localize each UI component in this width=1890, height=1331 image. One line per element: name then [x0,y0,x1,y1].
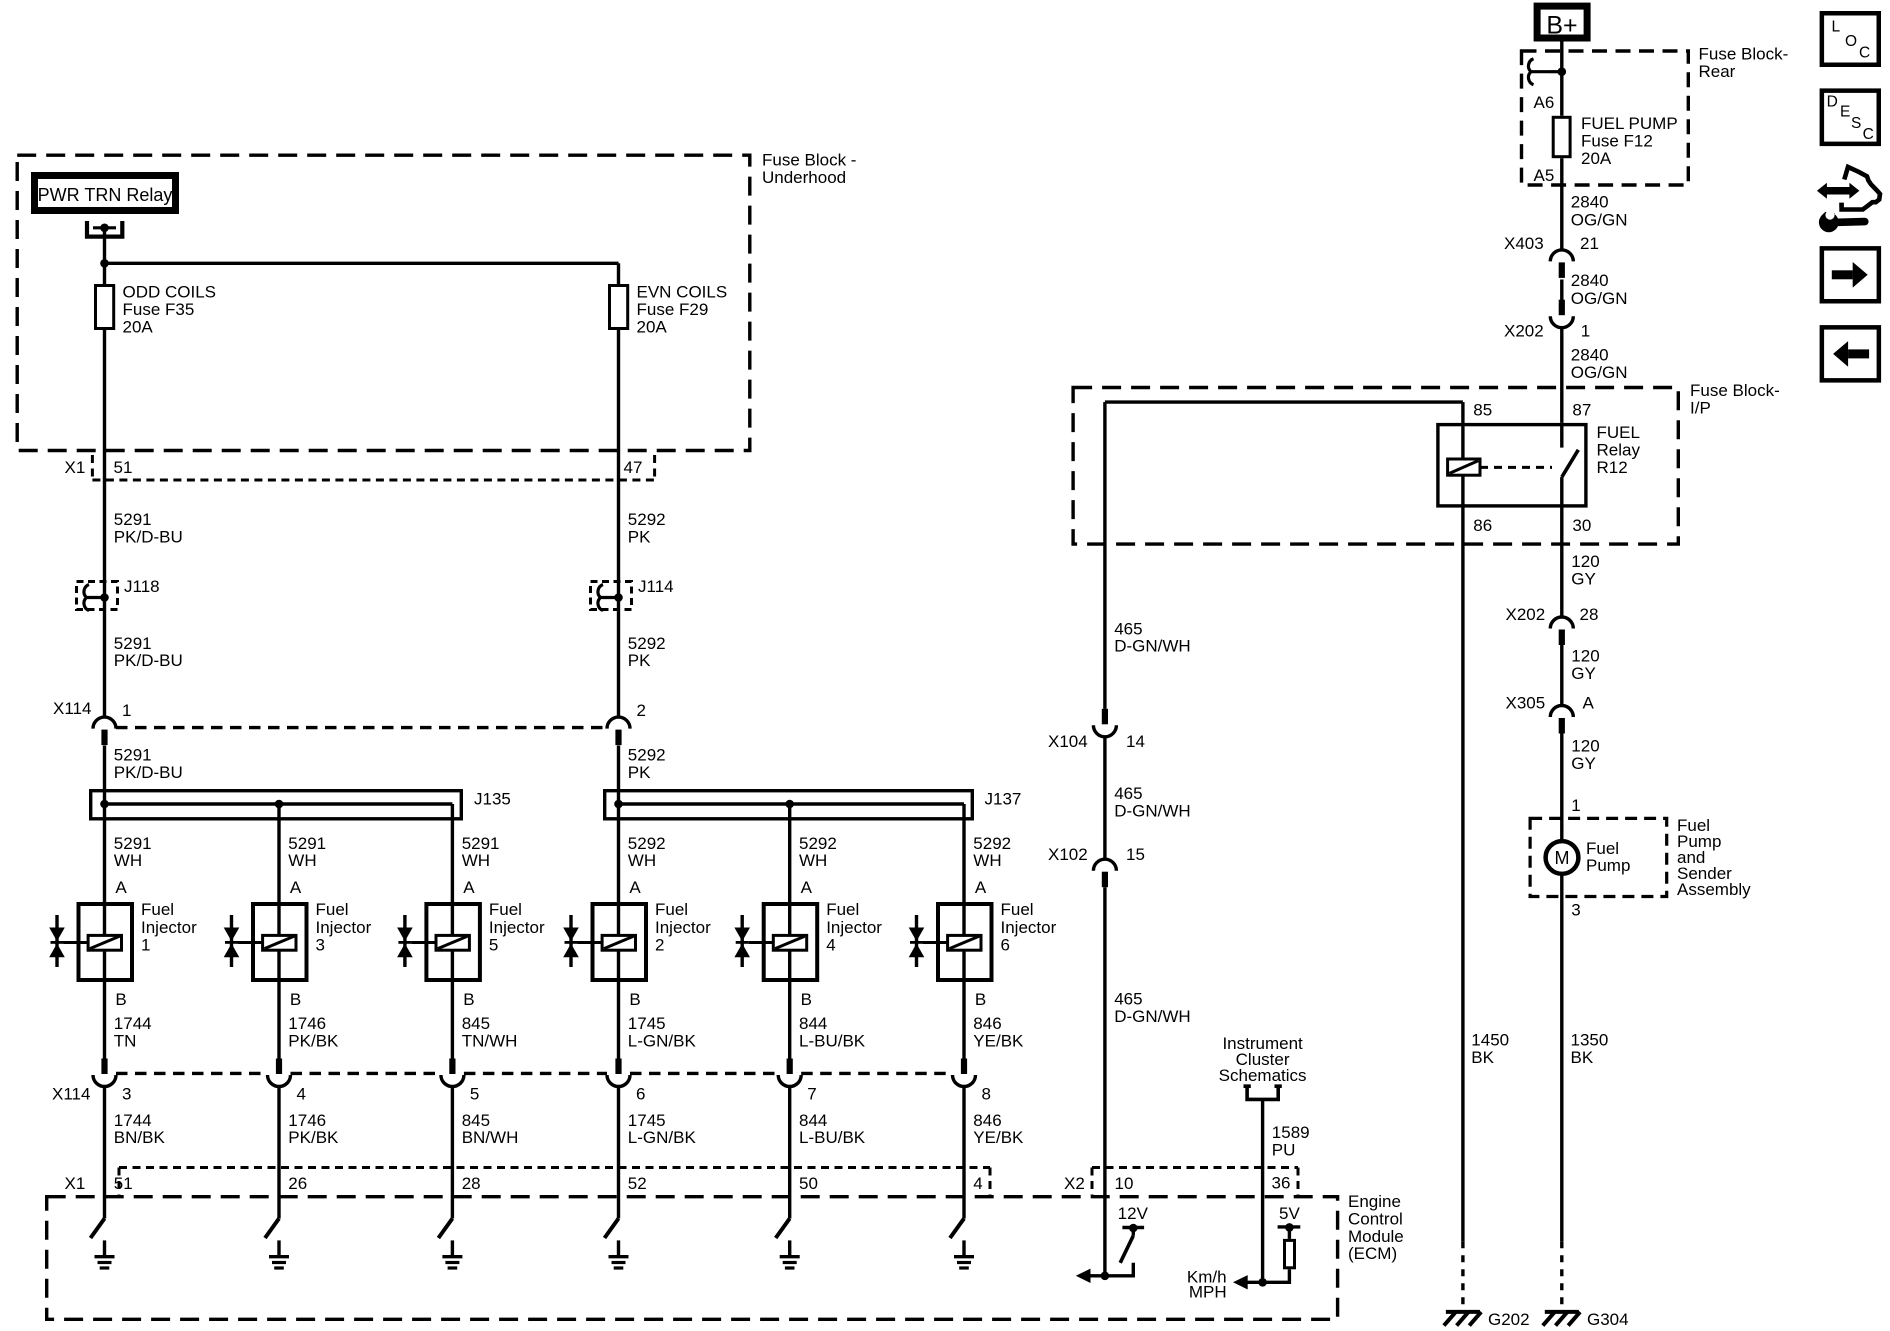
ECM 5V pullup resistor [1243,1223,1300,1287]
svg-text:2840: 2840 [1571,193,1609,212]
svg-text:1350: 1350 [1571,1031,1609,1050]
svg-text:PWR TRN Relay: PWR TRN Relay [38,185,173,205]
svg-text:3: 3 [1571,901,1580,920]
wire label 5291 WH [114,834,152,870]
ECM 12V supply label [1118,1204,1149,1223]
wire relay to fuses [103,228,106,284]
wire label 844 L-BU/BK [799,1111,866,1147]
svg-text:1450: 1450 [1471,1031,1509,1050]
fuse F12 FUEL PUMP 20A [1553,114,1677,168]
svg-text:3: 3 [316,936,325,955]
wire X114 to ECM column 1 [103,1087,106,1219]
svg-text:PK: PK [628,651,651,670]
wire B+ to fuse F12 [1560,42,1563,116]
svg-text:C: C [1863,126,1874,143]
wire X114 to ECM column 4 [617,1087,620,1219]
splice J118 [77,577,160,611]
connector X305 pin A [1506,694,1595,734]
svg-text:Injector: Injector [489,918,545,937]
pin A fuel injector 4 [801,878,813,897]
ECM driver switch column 6 [950,1219,964,1239]
svg-text:G304: G304 [1587,1310,1629,1329]
fuse block rear label [1699,45,1789,82]
wire label 846 YE/BK [973,1014,1024,1051]
fuel injector 5 [397,900,545,980]
svg-text:28: 28 [1580,605,1599,624]
svg-text:OG/GN: OG/GN [1571,289,1628,308]
svg-text:YE/BK: YE/BK [973,1128,1024,1147]
svg-text:20A: 20A [1581,149,1612,168]
engine control module ECM box [47,1197,1338,1320]
svg-text:ODD COILS: ODD COILS [123,283,217,302]
svg-text:EVN COILS: EVN COILS [637,283,728,302]
svg-text:Injector: Injector [141,918,197,937]
connector X104 pin 14 [1048,709,1145,751]
svg-text:X114: X114 [53,699,91,718]
svg-text:120: 120 [1571,737,1599,756]
svg-text:1745: 1745 [628,1014,666,1033]
splice J114 [591,577,674,611]
wire label 5291 PK/D-BU [114,510,183,547]
wire label 5292 PK [628,510,666,547]
svg-text:GY: GY [1571,754,1596,773]
svg-text:BN/WH: BN/WH [462,1128,519,1147]
wire to fuel injector column 3 [451,804,454,1060]
svg-text:X1: X1 [65,458,86,477]
svg-text:4: 4 [826,936,835,955]
fuse F35 ODD COILS 20A [96,283,217,337]
svg-text:OG/GN: OG/GN [1571,211,1628,230]
svg-text:5: 5 [489,936,498,955]
svg-text:Fuel: Fuel [826,900,859,919]
pin B fuel injector 3 [290,990,301,1009]
bus tap fuse block rear [1528,59,1566,85]
svg-text:D-GN/WH: D-GN/WH [1114,1007,1190,1026]
fuse F29 EVN COILS 20A [610,283,728,337]
relay R12 FUEL Relay [1438,401,1641,536]
wire X114-2 to J137 [617,746,620,805]
pin B fuel injector 5 [463,990,474,1009]
connector X2 [1064,1168,1298,1196]
pin B fuel injector 6 [975,990,986,1009]
svg-text:B: B [975,990,986,1009]
svg-text:47: 47 [624,458,643,477]
fuse block underhood box [17,155,750,450]
svg-text:2840: 2840 [1571,271,1609,290]
wire fuse F35 down [103,330,106,717]
svg-text:85: 85 [1473,401,1492,420]
svg-text:26: 26 [288,1174,307,1193]
svg-text:L-BU/BK: L-BU/BK [799,1128,866,1147]
pin A6 [1534,93,1555,112]
svg-text:5292: 5292 [628,510,666,529]
svg-text:2: 2 [655,936,664,955]
wire label 1744 BN/BK [114,1111,166,1147]
fuse block rear box [1522,51,1689,185]
svg-text:A: A [463,878,475,897]
wire X114 to ECM column 2 [277,1087,280,1219]
pin B fuel injector 2 [629,990,640,1009]
svg-text:G202: G202 [1488,1310,1530,1329]
svg-text:14: 14 [1126,732,1145,751]
svg-text:PK/D-BU: PK/D-BU [114,651,183,670]
svg-text:86: 86 [1473,516,1492,535]
wire label 5292 WH [973,834,1011,870]
svg-text:Injector: Injector [655,918,711,937]
svg-text:845: 845 [462,1014,490,1033]
icon next arrow button [1822,248,1879,301]
wire fuse F12 to X403 [1560,158,1563,250]
svg-text:Fuse F35: Fuse F35 [123,300,195,319]
svg-text:B: B [801,990,812,1009]
svg-text:5V: 5V [1279,1204,1300,1223]
svg-text:X102: X102 [1048,845,1088,864]
wire label 5291 PK/D-BU [114,634,183,670]
svg-text:21: 21 [1580,234,1599,253]
svg-text:844: 844 [799,1014,827,1033]
svg-text:YE/BK: YE/BK [973,1032,1024,1051]
svg-text:20A: 20A [123,318,154,337]
wire label 845 BN/WH [462,1111,519,1147]
svg-text:O: O [1845,33,1857,50]
wire label 120 GY [1571,737,1599,774]
wire label 1450 BK [1471,1031,1509,1068]
svg-text:Fuel: Fuel [489,900,522,919]
svg-text:FUEL PUMP: FUEL PUMP [1581,114,1678,133]
pin 3 fuel pump [1571,901,1580,920]
svg-text:X1: X1 [65,1174,86,1193]
svg-text:WH: WH [628,851,656,870]
svg-text:Fuse Block -: Fuse Block - [762,151,856,170]
svg-text:Fuse F12: Fuse F12 [1581,132,1653,151]
svg-text:2840: 2840 [1571,346,1609,365]
fuse block IP box [1073,388,1678,545]
wire label 844 L-BU/BK [799,1014,866,1051]
svg-text:6: 6 [636,1085,645,1104]
wire label 5291 WH [462,834,500,870]
pin A fuel injector 5 [463,878,475,897]
svg-text:8: 8 [982,1085,991,1104]
svg-text:B: B [463,990,474,1009]
svg-text:WH: WH [973,851,1001,870]
svg-text:J137: J137 [985,790,1022,809]
svg-text:I/P: I/P [1690,399,1711,418]
svg-text:1: 1 [122,701,131,720]
svg-text:28: 28 [462,1174,481,1193]
svg-text:50: 50 [799,1174,818,1193]
wire fuse F29 down [617,330,620,717]
relay PWR TRN Relay label box [35,176,176,211]
svg-text:X403: X403 [1504,234,1544,253]
svg-text:5292: 5292 [628,746,666,765]
svg-text:A6: A6 [1534,93,1555,112]
ECM 5V supply label [1279,1204,1300,1223]
svg-text:Schematics: Schematics [1219,1066,1307,1085]
splice pack J135 [91,790,511,819]
wire X114 to ECM column 3 [451,1087,454,1219]
svg-text:PK: PK [628,528,651,547]
svg-text:Control: Control [1348,1210,1403,1229]
wire label 1745 L-GN/BK [628,1014,697,1051]
wire label 1589 PU [1272,1123,1310,1160]
wire label 1745 L-GN/BK [628,1111,697,1147]
svg-text:D-GN/WH: D-GN/WH [1114,637,1190,656]
svg-text:X305: X305 [1506,694,1546,713]
wire label 120 GY [1571,552,1599,589]
svg-text:PU: PU [1272,1141,1296,1160]
pin B fuel injector 1 [115,990,126,1009]
svg-text:R12: R12 [1597,458,1628,477]
ECM 12V output arrow [1076,1269,1105,1283]
svg-text:10: 10 [1115,1174,1134,1193]
svg-text:J118: J118 [124,577,160,596]
connector X1 row upper [92,455,654,480]
svg-text:36: 36 [1272,1174,1291,1193]
wire X114-1 to J135 [103,746,106,805]
wire label 5292 WH [799,834,837,870]
svg-text:1: 1 [1581,322,1590,341]
wire label 5291 PK/D-BU [114,746,183,783]
battery B+ terminal [1537,6,1587,39]
svg-text:D-GN/WH: D-GN/WH [1114,802,1190,821]
wire X202 to fuel relay [1560,328,1563,423]
svg-text:1: 1 [1571,796,1580,815]
wire label 5292 PK [628,746,666,783]
svg-text:GY: GY [1571,664,1596,683]
svg-text:Pump: Pump [1586,856,1630,875]
wire label 465 D-GN/WH [1114,620,1190,656]
svg-text:A: A [115,878,127,897]
svg-text:PK/D-BU: PK/D-BU [114,763,183,782]
svg-text:WH: WH [114,851,142,870]
connector X202 pin 1 [1504,300,1590,341]
svg-text:J135: J135 [474,790,511,809]
ground ECM column 2 [269,1240,289,1268]
wire X104 to X102 [1103,737,1106,859]
ECM driver switch column 2 [265,1219,279,1239]
wire X403 to X202 [1560,280,1563,301]
ground ECM column 1 [95,1240,115,1268]
svg-text:WH: WH [799,851,827,870]
connector X102 pin 15 [1048,845,1145,887]
ground ECM column 6 [954,1240,974,1268]
wire label 1746 PK/BK [288,1111,339,1147]
svg-text:4: 4 [973,1174,982,1193]
svg-text:1744: 1744 [114,1014,152,1033]
svg-text:1589: 1589 [1272,1123,1310,1142]
svg-text:E: E [1840,103,1850,120]
connector X114 row lower [52,1059,991,1104]
connector X114 row upper [53,699,646,745]
pin A fuel injector 1 [115,878,127,897]
svg-text:FUEL: FUEL [1597,423,1640,442]
wire to fuel injector column 2 [277,804,280,1060]
wire relay 30 to fuel pump [1560,477,1563,617]
svg-text:A: A [629,878,641,897]
ECM driver switch column 1 [91,1219,105,1239]
motor fuel pump [1546,839,1631,875]
svg-text:A: A [975,878,987,897]
wire label 845 TN/WH [462,1014,518,1051]
wire X305 to fuel pump [1560,734,1563,842]
ECM driver switch column 4 [605,1219,619,1239]
wire label 1744 TN [114,1014,152,1051]
wire label 1746 PK/BK [288,1014,339,1051]
icon LOC button [1822,13,1879,65]
connector X202 pin 28 [1506,605,1599,645]
svg-text:C: C [1859,45,1870,62]
relay coil [1448,459,1480,475]
pin A fuel injector 2 [629,878,641,897]
svg-text:Fuel: Fuel [655,900,688,919]
fuel injector 3 [224,900,372,980]
svg-text:A: A [290,878,302,897]
svg-text:S: S [1851,115,1861,132]
off-page bracket [1244,1086,1282,1099]
svg-text:TN/WH: TN/WH [462,1032,518,1051]
svg-text:X104: X104 [1048,732,1088,751]
svg-text:4: 4 [297,1085,306,1104]
wire label 5292 WH [628,834,666,870]
fuel pump assembly label [1677,816,1751,899]
fuse block underhood label [762,151,856,188]
icon vehicle diagram navigation [1817,167,1880,210]
ECM speed signal arrow Km/h MPH [1187,1267,1248,1301]
wire label 2840 OG/GN [1571,346,1628,383]
svg-text:A5: A5 [1534,166,1555,185]
wire X114 to ECM column 6 [962,1087,965,1219]
wire to fuel injector column 5 [788,804,791,1060]
ground ECM column 5 [780,1240,800,1268]
svg-text:PK: PK [628,763,651,782]
svg-text:Fuse Block-: Fuse Block- [1690,381,1780,400]
svg-text:Injector: Injector [316,918,372,937]
svg-text:Fuel: Fuel [141,900,174,919]
svg-text:L-GN/BK: L-GN/BK [628,1128,697,1147]
svg-text:J114: J114 [638,577,674,596]
relay actuation link [1480,466,1552,469]
svg-text:1: 1 [141,936,150,955]
svg-text:L-GN/BK: L-GN/BK [628,1032,697,1051]
svg-text:L: L [1832,19,1841,36]
icon DESC button [1822,91,1879,144]
svg-text:Rear: Rear [1699,62,1736,81]
svg-text:B: B [629,990,640,1009]
svg-text:X2: X2 [1064,1174,1085,1193]
ECM 12V driver switch [1101,1224,1145,1280]
wire to fuel injector column 6 [962,804,965,1060]
wire relay pin 85 feed [1105,402,1463,459]
wire to fuel injector column 4 [617,804,620,1060]
svg-text:846: 846 [973,1014,1001,1033]
wire label 2840 OG/GN [1571,271,1628,308]
fuse block IP label [1690,381,1780,418]
svg-text:5291: 5291 [114,746,152,765]
wire label 120 GY [1571,647,1599,684]
fuel injector 1 [49,900,197,980]
ECM label [1348,1192,1404,1263]
svg-text:Fuel: Fuel [316,900,349,919]
wire X202 to X305 [1560,645,1563,706]
svg-text:1746: 1746 [288,1014,326,1033]
wire X114 to ECM column 5 [788,1087,791,1219]
svg-text:Injector: Injector [1001,918,1057,937]
svg-text:PK/BK: PK/BK [288,1032,339,1051]
wire label 5291 WH [288,834,326,870]
svg-text:51: 51 [114,458,133,477]
svg-text:20A: 20A [637,318,668,337]
svg-text:BK: BK [1571,1048,1594,1067]
svg-text:BN/BK: BN/BK [114,1128,166,1147]
svg-text:X202: X202 [1504,322,1544,341]
svg-text:52: 52 [628,1174,647,1193]
svg-text:12V: 12V [1118,1204,1149,1223]
svg-text:87: 87 [1572,401,1591,420]
wire to fuel injector column 1 [103,804,106,1060]
wire label 1350 BK [1571,1031,1609,1068]
pin B fuel injector 4 [801,990,812,1009]
ground ECM column 4 [609,1240,629,1268]
svg-text:X202: X202 [1506,605,1546,624]
ground G304 [1543,1310,1629,1329]
wire label 846 YE/BK [973,1111,1024,1147]
svg-text:TN: TN [114,1032,137,1051]
pin A fuel injector 6 [975,878,987,897]
wire 465 from fuse block IP [1103,402,1106,709]
fuel pump and sender assembly box [1530,818,1667,896]
svg-text:465: 465 [1114,784,1142,803]
svg-text:51: 51 [114,1174,133,1193]
svg-text:B: B [115,990,126,1009]
wire X102 to ECM [1103,887,1106,1276]
icon back arrow button [1822,327,1879,380]
fuel injector 6 [909,900,1057,980]
svg-text:6: 6 [1001,936,1010,955]
wire 1589 PU [1261,1101,1264,1282]
svg-text:PK/D-BU: PK/D-BU [114,528,183,547]
svg-text:A: A [801,878,813,897]
wire relay 86 to ground G202 [1461,475,1464,1307]
svg-text:B: B [290,990,301,1009]
pin A5 [1534,166,1555,185]
svg-text:PK/BK: PK/BK [288,1128,339,1147]
svg-text:Fuse Block-: Fuse Block- [1699,45,1789,64]
svg-text:7: 7 [807,1085,816,1104]
svg-text:B+: B+ [1546,12,1577,40]
svg-text:Engine: Engine [1348,1192,1401,1211]
icon wrench [1819,210,1865,232]
wire label 5292 PK [628,634,666,670]
svg-text:465: 465 [1114,990,1142,1009]
splice pack J137 [605,790,1022,819]
ground ECM column 3 [442,1240,462,1268]
wire label 465 D-GN/WH [1114,784,1190,821]
fuel injector 2 [563,900,711,980]
wire label 2840 OG/GN [1571,193,1628,230]
wire feed to EVN fuse [105,263,619,284]
svg-text:120: 120 [1571,647,1599,666]
svg-text:30: 30 [1572,516,1591,535]
connector X1 row lower [65,1168,991,1196]
ground G202 [1444,1310,1530,1329]
pin A fuel injector 3 [290,878,302,897]
svg-text:Assembly: Assembly [1677,880,1751,899]
node junction feed [100,259,109,268]
svg-text:WH: WH [462,851,490,870]
svg-text:X114: X114 [52,1085,90,1104]
svg-text:M: M [1555,848,1570,868]
connector X1 upper labels [65,458,643,477]
